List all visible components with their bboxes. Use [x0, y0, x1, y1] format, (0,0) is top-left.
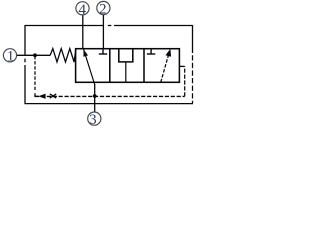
port circle 2: [97, 1, 110, 14]
left-pointing arrowhead on pilot line: [38, 94, 45, 99]
svg-text:4: 4: [79, 2, 87, 18]
wire port 3 vertical line: [94, 84, 96, 113]
pocket center line to bottom edge: [125, 62, 127, 82]
wire top rail short dash: [108, 25, 112, 27]
wire port 2 drop line: [102, 15, 104, 49]
wire right vertical dashed pilot: [192, 55, 194, 103]
blocked port T (right section): [150, 49, 152, 54]
svg-text:2: 2: [99, 1, 107, 17]
svg-text:1: 1: [7, 48, 15, 64]
wire top rail solid right segment: [114, 25, 193, 27]
junction dot on port1 line at pilot branch: [33, 53, 37, 57]
port circle 3: [88, 112, 101, 125]
wire top rail solid left segment (port1 loop): [25, 25, 103, 27]
blocked port T (port 2, left section): [99, 49, 156, 54]
svg-text:3: 3: [89, 112, 97, 128]
junction dot port 3 line and pilot line: [93, 94, 97, 98]
wire right vertical solid start: [192, 25, 194, 53]
wire pilot corner solid piece: [35, 93, 39, 96]
X (closed) symbol on pilot line: [50, 94, 56, 98]
wire pilot dashed horizontal bottom: [35, 95, 185, 97]
wire bottom rail solid: [25, 103, 194, 105]
wire pilot stub to valve right edge: [179, 65, 184, 67]
wire port 1 horizontal: [17, 54, 51, 56]
port circle 1: [3, 49, 16, 62]
wire left rail solid lower: [24, 65, 26, 104]
wire left rail solid upper (pressure): [24, 25, 26, 55]
wire pilot dashed vertical from port1 line: [34, 56, 36, 92]
valve section divider 2: [143, 49, 145, 83]
wire left rail short dash below junction: [24, 59, 26, 63]
valve body outline: [76, 49, 180, 83]
port circle 4: [76, 2, 89, 15]
wire pilot dashed vertical right riser: [184, 66, 186, 96]
wire port 4 drop line: [82, 15, 84, 49]
flow path arrow left section (3 to 4): [84, 49, 95, 84]
pocket (middle position port cavity): [119, 49, 133, 62]
valve section divider 1: [109, 49, 111, 83]
pilot flow dashed arrow right section: [161, 55, 169, 82]
spring: [50, 49, 76, 62]
